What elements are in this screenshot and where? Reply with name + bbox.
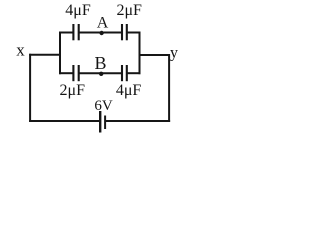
svg-text:A: A: [97, 15, 109, 32]
svg-text:x: x: [16, 41, 25, 60]
wire top branch right segment: [127, 32, 141, 34]
battery BT1 long plate: [99, 111, 101, 133]
capacitor C1 4uF plates: [73, 24, 78, 40]
wire top branch left segment: [59, 32, 73, 34]
wire top branch middle segment: [79, 32, 122, 34]
wire bottom branch right segment: [127, 72, 141, 74]
wire stub to node y: [139, 54, 171, 56]
capacitor C2 2uF plates: [122, 24, 127, 40]
wire bottom rail right of battery: [105, 120, 170, 122]
wire right drop: [168, 54, 170, 122]
svg-text:6V: 6V: [94, 98, 113, 114]
battery BT1 short plate: [104, 116, 106, 130]
wire stub to node x: [29, 54, 61, 56]
svg-text:B: B: [94, 53, 106, 73]
wire right inner rail: [139, 32, 141, 75]
wire left inner rail: [59, 32, 61, 75]
svg-text:4μF: 4μF: [65, 2, 91, 19]
wire bottom branch left segment: [59, 72, 73, 74]
svg-text:4μF: 4μF: [116, 82, 142, 99]
wire bottom rail left of battery: [29, 120, 100, 122]
svg-text:2μF: 2μF: [60, 82, 86, 99]
node A junction dot: [99, 31, 103, 35]
svg-text:2μF: 2μF: [116, 2, 142, 19]
node B junction dot: [99, 72, 103, 76]
wire bottom branch middle segment: [79, 72, 122, 74]
wire left drop: [29, 54, 31, 122]
capacitor C4 4uF plates: [122, 65, 127, 81]
capacitor C3 2uF plates: [73, 65, 78, 81]
svg-text:y: y: [170, 45, 178, 62]
